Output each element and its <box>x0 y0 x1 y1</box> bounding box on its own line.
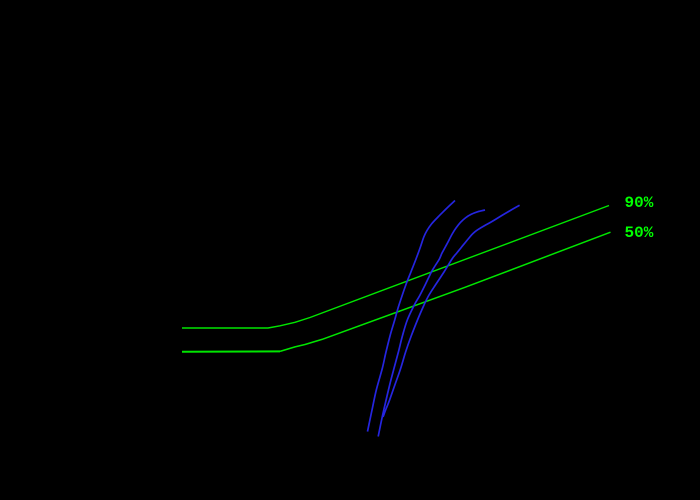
svg-text:90%: 90% <box>625 194 654 212</box>
svg-text:50%: 50% <box>625 224 654 242</box>
